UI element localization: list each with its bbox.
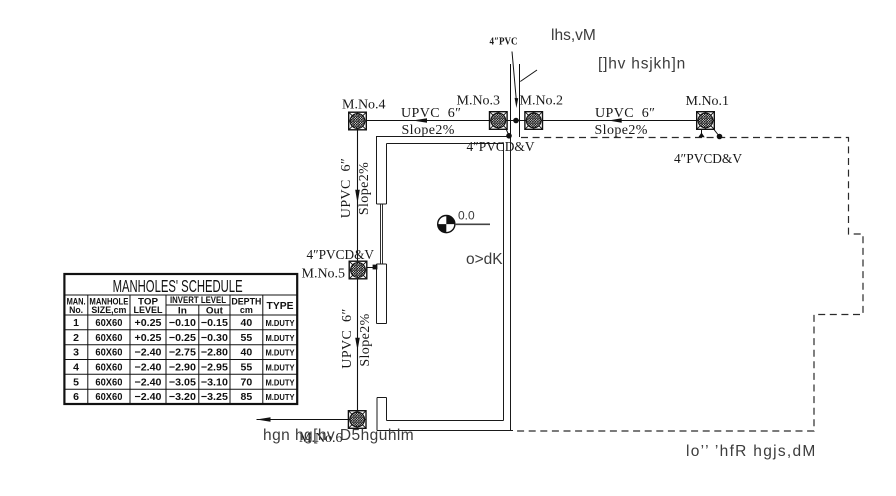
table row 3 <box>73 347 295 359</box>
leader M.No.3 corner to wall dot <box>506 128 510 136</box>
table row 2 <box>73 332 295 344</box>
svg-text:M.DUTY: M.DUTY <box>266 377 295 387</box>
svg-text:40: 40 <box>241 347 253 359</box>
wire main sewer line M.No.3 to M.No.2 <box>507 120 525 122</box>
svg-text:−0.25: −0.25 <box>169 332 196 344</box>
svg-text:55: 55 <box>241 362 253 374</box>
wire vertical sewer M.No.5 to M.No.6 <box>357 279 359 411</box>
svg-text:1: 1 <box>73 317 79 329</box>
svg-text:40: 40 <box>241 317 253 329</box>
svg-text:−0.10: −0.10 <box>169 317 196 329</box>
drop tick below M.No.1 <box>701 130 703 135</box>
wall top outer <box>376 136 511 138</box>
svg-text:−3.20: −3.20 <box>169 391 196 403</box>
svg-text:−3.10: −3.10 <box>201 376 228 388</box>
benchmark level symbol <box>438 216 490 233</box>
vent pipe 4"PVC left line <box>510 64 512 137</box>
svg-text:60X60: 60X60 <box>95 362 122 374</box>
arrow flow M4-M3 <box>413 118 427 123</box>
svg-text:−0.15: −0.15 <box>201 317 228 329</box>
svg-text:−2.40: −2.40 <box>135 376 162 388</box>
wire outfall line from M.No.6 <box>257 419 349 421</box>
svg-text:3: 3 <box>73 347 79 359</box>
svg-text:SIZE,cm: SIZE,cm <box>91 305 126 315</box>
svg-text:−2.40: −2.40 <box>135 362 162 374</box>
svg-text:60X60: 60X60 <box>95 347 122 359</box>
svg-text:M.DUTY: M.DUTY <box>266 318 295 328</box>
svg-text:LEVEL: LEVEL <box>134 305 163 315</box>
svg-text:−2.40: −2.40 <box>135 391 162 403</box>
svg-text:−2.95: −2.95 <box>201 362 228 374</box>
wire main sewer line M.No.2 to M.No.1 <box>543 120 697 122</box>
svg-text:60X60: 60X60 <box>95 332 122 344</box>
svg-text:4: 4 <box>73 362 79 374</box>
svg-text:−3.05: −3.05 <box>169 376 196 388</box>
svg-text:+0.25: +0.25 <box>135 332 162 344</box>
wall bottom inner <box>387 420 504 422</box>
svg-text:In: In <box>178 306 187 316</box>
wall right outer <box>510 137 512 431</box>
table row 4 <box>73 362 295 374</box>
window glazing lines <box>381 204 383 264</box>
svg-text:2: 2 <box>73 332 79 344</box>
wire vertical sewer M.No.4 to M.No.5 <box>357 130 359 261</box>
svg-text:cm: cm <box>240 305 253 315</box>
svg-text:5: 5 <box>73 376 79 388</box>
wall cap below door <box>377 397 387 399</box>
manhole M.No.2 <box>525 112 543 130</box>
table row 5 <box>73 376 295 388</box>
window sill cap <box>377 203 387 205</box>
junction dot pipe to sewer <box>513 118 519 124</box>
svg-text:60X60: 60X60 <box>95 376 122 388</box>
wall left inner mid segment <box>386 264 388 324</box>
svg-text:6: 6 <box>73 391 79 403</box>
svg-text:70: 70 <box>241 376 253 388</box>
wall left outer upper segment <box>376 137 378 205</box>
wall right inner <box>503 144 505 421</box>
svg-text:TYPE: TYPE <box>267 301 294 312</box>
wall left outer lower segment <box>376 398 378 431</box>
table row 1 <box>73 317 295 329</box>
arrow outfall <box>257 417 271 422</box>
svg-text:No.: No. <box>69 305 83 315</box>
wall left inner upper segment <box>386 144 388 205</box>
junction dot pipe at wall corner <box>506 133 512 139</box>
svg-text:−2.75: −2.75 <box>169 347 196 359</box>
svg-text:−0.30: −0.30 <box>201 332 228 344</box>
svg-text:55: 55 <box>241 332 253 344</box>
junction dot on boundary near M.No.1 <box>717 134 723 140</box>
svg-text:M.DUTY: M.DUTY <box>266 392 295 402</box>
window bottom cap <box>377 263 387 265</box>
table row 6 <box>73 391 295 403</box>
wall left outer mid segment <box>376 264 378 324</box>
vent pipe down arrowhead <box>515 98 519 108</box>
svg-text:−2.40: −2.40 <box>135 347 162 359</box>
svg-text:M.DUTY: M.DUTY <box>266 333 295 343</box>
manhole M.No.1 <box>697 112 715 130</box>
svg-text:−2.90: −2.90 <box>169 362 196 374</box>
vent pipe slanted stem <box>512 52 516 101</box>
wall left inner lower segment <box>386 398 388 421</box>
svg-text:MANHOLES' SCHEDULE: MANHOLES' SCHEDULE <box>113 276 243 296</box>
arrow flow M2-M1 <box>608 118 621 123</box>
junction square dot at wall by M.No.5 <box>373 265 378 270</box>
svg-text:Out: Out <box>206 306 223 316</box>
svg-text:60X60: 60X60 <box>95 391 122 403</box>
svg-text:85: 85 <box>241 391 253 403</box>
drop triangle below M.No.1 <box>698 133 704 138</box>
svg-text:INVERT LEVEL: INVERT LEVEL <box>170 295 226 305</box>
manhole M.No.4 <box>349 112 367 130</box>
manhole M.No.5 <box>349 261 367 279</box>
manhole M.No.6 <box>348 411 366 429</box>
svg-text:M.DUTY: M.DUTY <box>266 348 295 358</box>
wire main sewer line M.No.4 to M.No.3 <box>367 120 490 122</box>
door opening cap <box>377 323 387 325</box>
connector M.No.5 to wall <box>367 267 374 269</box>
wall bottom outer <box>377 430 513 432</box>
leader M.No.1 corner to boundary dot <box>712 127 720 137</box>
arrow flow M5-M6 <box>355 338 360 351</box>
svg-text:60X60: 60X60 <box>95 317 122 329</box>
svg-text:M.DUTY: M.DUTY <box>266 363 295 373</box>
table grid lines <box>64 295 297 389</box>
svg-text:+0.25: +0.25 <box>135 317 162 329</box>
svg-text:−2.80: −2.80 <box>201 347 228 359</box>
manhole M.No.3 <box>490 112 508 130</box>
dashed property boundary <box>513 138 863 432</box>
arrow flow M4-M5 <box>355 190 360 204</box>
table outer border <box>64 274 297 404</box>
vent pipe 4"PVC right line <box>519 64 521 137</box>
svg-text:−3.25: −3.25 <box>201 391 228 403</box>
wall top inner <box>387 143 504 145</box>
leader line to vent note <box>520 70 537 82</box>
